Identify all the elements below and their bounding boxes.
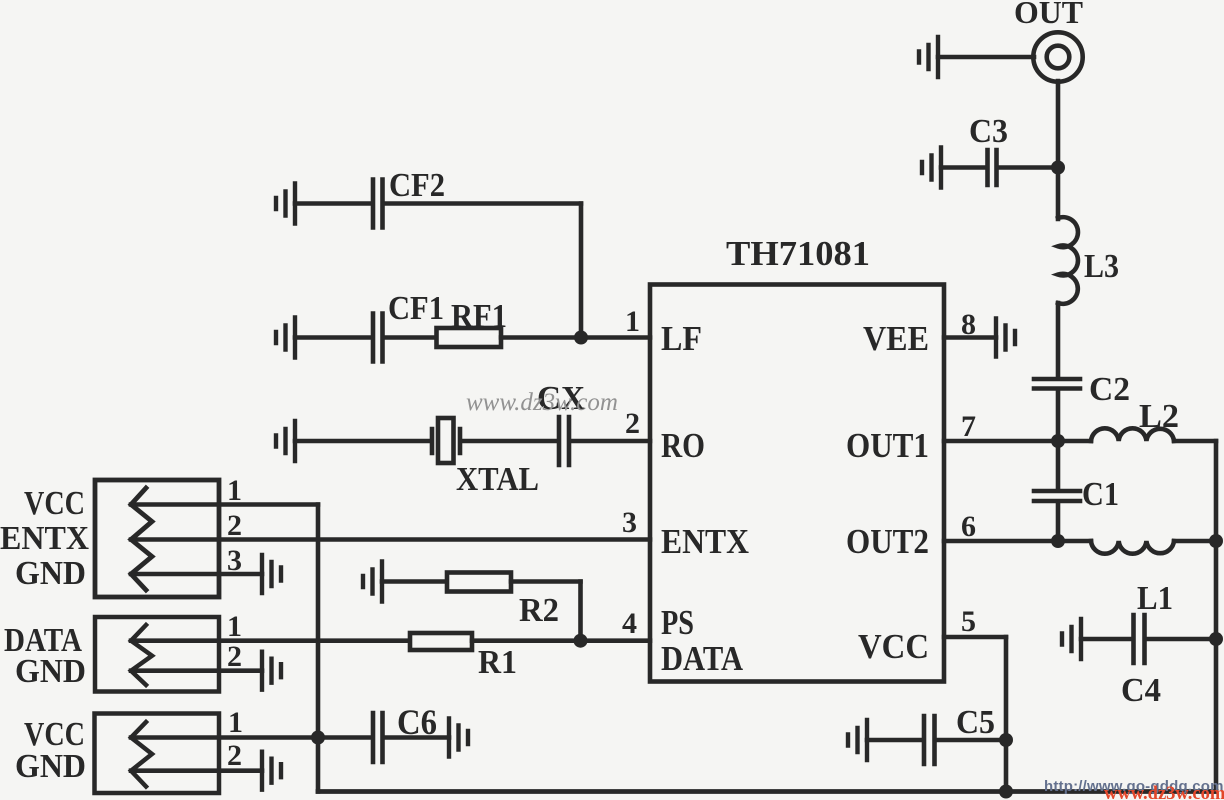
svg-text:4: 4: [622, 607, 637, 640]
ground (C4): [1062, 619, 1081, 659]
node C5 junction: [999, 733, 1013, 747]
svg-text:PS: PS: [661, 603, 694, 642]
node VCC bus / J3 pin1 junction: [311, 731, 325, 745]
capacitor C1: [1034, 491, 1080, 501]
wire IC pin 5 stub: [944, 635, 1006, 640]
ground (R2): [363, 562, 382, 602]
wire L2 to right bus corner: [1174, 439, 1216, 444]
svg-text:7: 7: [961, 410, 976, 443]
connector J2 zigzag contacts: [131, 625, 152, 685]
svg-text:L2: L2: [1139, 398, 1179, 435]
wire L3 to C2: [1056, 303, 1061, 377]
wire ground to C5: [867, 738, 922, 743]
capacitor CF2: [373, 180, 383, 228]
ground (J3 pin2): [262, 752, 281, 790]
wire ground to CF2: [295, 201, 371, 206]
svg-text:C2: C2: [1089, 371, 1130, 408]
wire L1 to right bus: [1174, 539, 1216, 544]
wire J3 pin1 VCC to bus: [131, 735, 318, 740]
wire C5 to pin5 vertical: [937, 738, 1007, 743]
coax connector OUT outer ring: [1033, 32, 1082, 81]
capacitor C3: [988, 150, 997, 185]
svg-text:TH71081: TH71081: [726, 234, 870, 273]
connector J3 zigzag contacts: [131, 722, 152, 787]
ground (VEE pin 8): [996, 319, 1015, 357]
ground (J1 pin3): [262, 555, 281, 593]
svg-text:GND: GND: [15, 748, 86, 785]
wire ground to C3: [941, 165, 985, 170]
ground (J2 pin2): [262, 652, 281, 690]
svg-text:GND: GND: [15, 555, 86, 592]
connector J3 body: [95, 714, 220, 794]
wire IC pin 6 OUT2 to L1: [944, 539, 1091, 544]
crystal XTAL: [432, 429, 460, 453]
wire ground to XTAL: [295, 439, 430, 444]
node PS/DATA junction: [574, 634, 588, 648]
svg-text:ENTX: ENTX: [661, 522, 749, 561]
svg-text:VCC: VCC: [858, 627, 929, 666]
svg-text:1: 1: [625, 305, 640, 338]
wire VCC bus vertical: [316, 505, 321, 792]
ground (C5): [848, 720, 867, 760]
svg-text:1: 1: [227, 474, 242, 507]
wire corner down to LF node: [579, 204, 584, 338]
svg-text:www.dz3w.com: www.dz3w.com: [1104, 784, 1224, 800]
svg-text:RO: RO: [661, 426, 705, 465]
wire C6 to ground: [385, 735, 450, 740]
svg-text:VEE: VEE: [863, 319, 929, 358]
inductor L3: [1058, 217, 1078, 304]
svg-text:GND: GND: [15, 653, 86, 690]
ground (CF2 row): [276, 184, 295, 224]
svg-text:2: 2: [227, 509, 242, 542]
svg-text:3: 3: [622, 506, 637, 539]
wire CX to IC pin 2 RO: [571, 439, 650, 444]
wire J2 pin1 DATA to R1: [131, 638, 410, 643]
capacitor C6: [373, 713, 383, 762]
wire C3 to OUT vertical: [999, 165, 1059, 170]
wire C4 to right bus: [1147, 637, 1217, 642]
inductor L2: [1091, 428, 1174, 441]
wire J2 pin2 to ground: [131, 668, 262, 673]
svg-text:2: 2: [625, 407, 640, 440]
node C3 / OUT junction: [1051, 161, 1065, 175]
wire J1 pin3 to ground: [131, 572, 262, 577]
wire R1 to IC pin 4 PS/DATA: [472, 638, 650, 643]
connector J2 body: [95, 617, 219, 692]
ground (OUT): [919, 37, 938, 77]
resistor R1: [410, 633, 472, 650]
coax connector OUT inner ring: [1047, 46, 1070, 69]
svg-text:C3: C3: [969, 113, 1008, 150]
wire J1 pin2 ENTX to IC pin 3: [131, 537, 650, 542]
svg-text:ENTX: ENTX: [0, 520, 89, 557]
svg-text:OUT: OUT: [1014, 0, 1083, 30]
wire XTAL to CX: [462, 439, 557, 444]
svg-text:DATA: DATA: [661, 639, 744, 678]
svg-text:1: 1: [227, 610, 242, 643]
wire IC pin 7 OUT1 to L2: [944, 439, 1091, 444]
wire OUT1 node to C1: [1056, 441, 1061, 489]
ground (XTAL row): [276, 421, 295, 461]
svg-text:OUT1: OUT1: [846, 426, 929, 465]
wire J1 pin1 VCC to bus corner: [131, 502, 318, 507]
svg-text:VCC: VCC: [24, 485, 85, 522]
resistor R2: [447, 573, 511, 592]
wire RF1 to IC pin 1 LF: [501, 335, 650, 340]
wire ground to OUT connector: [938, 55, 1034, 60]
wire ground to R2: [382, 579, 447, 584]
node LF junction: [574, 331, 588, 345]
wire R2 corner down to PS node: [578, 582, 583, 641]
svg-text:C5: C5: [956, 704, 995, 741]
wire pin 5 vertical to bottom rail: [1004, 637, 1009, 792]
svg-text:L3: L3: [1084, 248, 1119, 285]
node OUT1 / C2 / L2 junction: [1051, 434, 1065, 448]
capacitor C4: [1134, 615, 1145, 663]
ground (C3): [922, 148, 941, 188]
wire ground to CF1: [295, 335, 371, 340]
svg-text:R2: R2: [519, 592, 559, 629]
svg-text:CF1: CF1: [388, 290, 444, 327]
ground (C6): [449, 719, 468, 757]
svg-text:RF1: RF1: [451, 298, 507, 335]
inductor L1: [1091, 541, 1174, 554]
svg-text:XTAL: XTAL: [456, 461, 539, 498]
node C4 / right bus junction: [1209, 632, 1223, 646]
wire right bus vertical: [1214, 441, 1219, 792]
wire C6 node to capacitor: [318, 735, 371, 740]
node bottom rail / pin5 junction: [999, 785, 1013, 799]
wire IC pin 8 VEE stub: [944, 335, 996, 340]
wire J3 pin2 to ground: [131, 768, 262, 773]
capacitor C5: [924, 716, 935, 764]
svg-text:1: 1: [228, 706, 243, 739]
svg-text:L1: L1: [1137, 580, 1173, 617]
wire OUT connector down to C3 node: [1056, 81, 1061, 219]
connector J1 zigzag contacts: [131, 488, 152, 590]
svg-text:OUT2: OUT2: [846, 522, 929, 561]
wire R2 to corner: [511, 579, 581, 584]
node L1 / right bus junction: [1209, 534, 1223, 548]
svg-text:5: 5: [961, 605, 976, 638]
svg-text:2: 2: [227, 739, 242, 772]
svg-text:LF: LF: [661, 319, 702, 358]
wire CF2 to corner: [385, 201, 582, 206]
svg-text:C1: C1: [1082, 476, 1119, 513]
wire C2 to OUT1 node: [1056, 391, 1061, 442]
svg-text:2: 2: [227, 640, 242, 673]
svg-text:CF2: CF2: [389, 167, 445, 204]
capacitor CF1: [373, 314, 383, 362]
resistor RF1: [437, 328, 502, 347]
svg-text:www.dz3w.com: www.dz3w.com: [466, 389, 618, 416]
wire CF1 to RF1: [385, 335, 437, 340]
svg-text:6: 6: [961, 510, 976, 543]
wire C1 to OUT2 node: [1056, 503, 1061, 541]
connector J1 body: [95, 480, 219, 597]
svg-text:R1: R1: [478, 644, 517, 681]
ground (CF1 row): [276, 318, 295, 358]
capacitor C2: [1034, 379, 1080, 389]
IC U1 TH71081 body: [650, 285, 944, 682]
node OUT2 / C1 / L1 junction: [1051, 534, 1065, 548]
wire bottom VCC rail: [318, 789, 1216, 794]
svg-text:C4: C4: [1121, 672, 1161, 709]
capacitor CX: [559, 417, 569, 465]
wire ground to C4: [1081, 637, 1131, 642]
svg-text:C6: C6: [397, 702, 437, 742]
